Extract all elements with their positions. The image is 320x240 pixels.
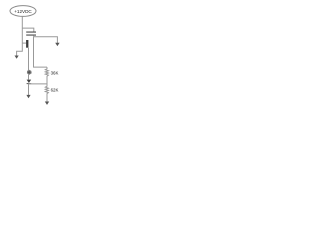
svg-text:36K: 36K [51, 70, 59, 75]
svg-text:+12VDC: +12VDC [14, 9, 32, 14]
svg-text:62K: 62K [51, 88, 59, 93]
